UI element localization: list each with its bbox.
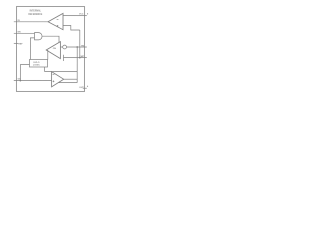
node pin1 wire: [14, 21, 48, 23]
svg-text:8: 8: [87, 13, 89, 15]
svg-text:UVLO: UVLO: [33, 62, 39, 64]
wire U3 output: [64, 78, 77, 80]
wire B1 out down: [44, 67, 46, 72]
svg-text:REF: REF: [18, 43, 23, 45]
wire Q1 output to right pin: [67, 46, 87, 48]
wire G1 output: [42, 36, 59, 42]
svg-text:CMP: CMP: [79, 56, 84, 58]
svg-text:ON: ON: [53, 48, 57, 50]
svg-text:LOGIC: LOGIC: [33, 65, 40, 67]
svg-text:EN: EN: [18, 32, 21, 34]
svg-text:OUT: OUT: [79, 87, 84, 89]
wire C1 to comp pin: [63, 57, 86, 59]
wire feedback bottom: [59, 82, 78, 84]
wire U1 top input to VCC pin: [63, 15, 87, 17]
svg-text:VCC: VCC: [79, 14, 84, 16]
label plus U1: [57, 25, 59, 27]
node pin4 stub: [14, 42, 18, 44]
label minus U3: [53, 74, 55, 76]
svg-text:INTERNAL: INTERNAL: [30, 10, 42, 13]
wire feedback top: [45, 71, 78, 73]
pin tick out pin: [83, 87, 87, 89]
svg-text:4: 4: [87, 85, 89, 88]
wire vertical V2: [79, 30, 81, 58]
wire stub to current source: [60, 46, 62, 48]
op-amp U1: [48, 13, 63, 29]
op-amp U3: [52, 72, 64, 87]
junction dot C: [79, 57, 81, 59]
svg-text:GD: GD: [18, 79, 22, 81]
junction dot B: [76, 46, 78, 48]
svg-text:REFERENCE: REFERENCE: [28, 14, 42, 16]
node pin2 wire: [14, 32, 35, 34]
AND gate G1: [35, 33, 43, 40]
IC outline box: [16, 6, 84, 91]
comparator U2: [46, 42, 60, 59]
svg-text:FB: FB: [81, 45, 84, 47]
wire B1 input: [20, 65, 29, 81]
capacitor C1 plate: [62, 55, 64, 61]
label minus U1: [57, 19, 59, 21]
wire U1 lower input: [63, 26, 80, 31]
wire U2 output to logic box: [47, 50, 49, 60]
logic box B1: [29, 59, 47, 67]
wire G1 lower input: [30, 38, 34, 60]
node pin3 ground rail: [14, 80, 52, 82]
wire feedback vertical V1: [76, 47, 78, 83]
current source Q1: [63, 45, 67, 49]
junction dot A: [20, 80, 22, 82]
label plus U3: [53, 80, 55, 82]
